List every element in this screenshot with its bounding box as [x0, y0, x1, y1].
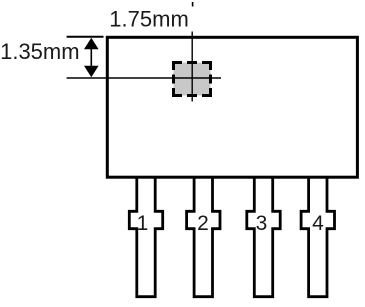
svg-text:1.35mm: 1.35mm — [0, 39, 79, 64]
svg-text:3: 3 — [256, 212, 268, 235]
svg-text:1: 1 — [137, 212, 149, 235]
svg-text:1.75mm: 1.75mm — [109, 7, 188, 32]
svg-text:4: 4 — [312, 212, 324, 235]
svg-text:2: 2 — [197, 212, 209, 235]
